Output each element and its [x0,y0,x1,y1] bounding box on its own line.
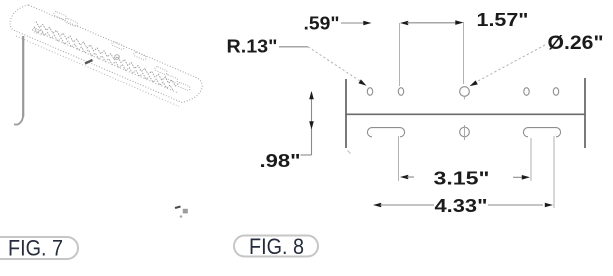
extension line above center hole [463,22,465,84]
stray mark dot [180,215,183,218]
svg-text:FIG. 7: FIG. 7 [8,236,63,261]
FIG.7 hanger rod [22,36,24,117]
FIG.7 slot near top-left #2 [65,18,79,27]
FIG.7 slot middle-right [133,52,147,61]
top slot left arc [524,88,529,96]
FIG.7 slot middle [111,41,125,50]
extension line below right slot left end [530,138,532,181]
extension line below right slot right end [553,136,555,208]
svg-text:Ø.26": Ø.26" [548,32,604,54]
FIG.7 rod hook [14,113,23,125]
stray mark box [183,209,188,214]
extension line below left slot [398,136,400,181]
FIG.7 dark mark on strip [85,60,93,64]
FIG.7 small hole [115,55,120,60]
svg-text:FIG. 8: FIG. 8 [249,234,304,259]
svg-text:3.15": 3.15" [434,169,490,189]
bracket right end edge [584,78,586,148]
dimension 1.57in [400,21,408,26]
FIG.7 slot near top-left #1 [53,11,67,20]
FIG.7 slot at left cap [32,28,44,36]
top hole #2 [398,88,403,96]
top slot right arc [553,88,558,96]
bracket horizontal fold line [346,113,585,115]
bottom left slot [367,128,404,137]
svg-text:.59": .59" [304,14,340,34]
FIG.7 mounting plate top face outline [10,5,202,103]
FIG. 8 label pill [234,236,318,257]
dimension .98in [311,92,313,155]
FIG.7 slot bottom-right #2 [165,74,179,83]
extension line above top hole #2 [399,23,401,86]
FIG.7 plate bottom thickness edge [16,36,179,107]
svg-text:R.13": R.13" [227,37,278,57]
tick below left edge [348,151,351,154]
top hole #1 [367,88,372,96]
dimension 4.33in [373,203,381,208]
FIG.7 slot bottom-right #1 [154,66,168,75]
dimension 3.15in [400,175,408,180]
FIG.7 serrated rack strip row 2 (zigzag teeth) [34,27,173,92]
svg-text:4.33": 4.33" [435,196,488,216]
top center hole (0.26in dia) [460,87,470,97]
bottom center hole with centerline [460,127,470,137]
bottom right slot [523,128,560,137]
FIG.7 serration lower boundary line [32,30,178,94]
bracket left end edge [345,79,347,148]
FIG.7 slot bottom-right #3 [177,82,191,91]
stray mark dash [175,207,181,209]
FIG.7 serrated rack strip row 1 (zigzag teeth) [36,22,179,87]
svg-text:1.57": 1.57" [477,10,529,30]
FIG. 7 label pill [0,237,78,259]
svg-text:.98": .98" [260,151,301,171]
